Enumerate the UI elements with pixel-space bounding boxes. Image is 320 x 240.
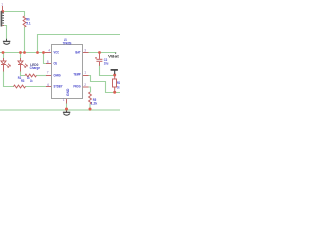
svg-text:STDBY: STDBY	[54, 85, 63, 89]
svg-text:BAT: BAT	[75, 51, 81, 55]
svg-text:GND: GND	[66, 88, 70, 96]
svg-text:4: 4	[48, 49, 50, 53]
svg-text:TP4056: TP4056	[63, 41, 72, 45]
svg-text:2: 2	[84, 83, 86, 87]
svg-text:VCC: VCC	[54, 51, 60, 55]
svg-text:TEMP: TEMP	[73, 72, 81, 76]
svg-text:8: 8	[47, 60, 49, 64]
svg-text:CE: CE	[54, 62, 58, 66]
svg-text:1.2k: 1.2k	[91, 101, 98, 105]
svg-text:CHRG: CHRG	[54, 74, 61, 78]
svg-text:3: 3	[84, 49, 86, 53]
svg-text:1: 1	[1, 3, 3, 7]
svg-text:1k: 1k	[117, 85, 120, 89]
svg-text:1k: 1k	[30, 79, 33, 83]
svg-text:1: 1	[84, 71, 86, 75]
svg-text:5.1: 5.1	[26, 21, 31, 25]
svg-text:1: 1	[63, 98, 65, 102]
svg-text:10u: 10u	[104, 62, 109, 66]
svg-text:VBat: VBat	[108, 54, 120, 58]
svg-text:LED0: LED0	[30, 63, 38, 67]
svg-text:PROG: PROG	[73, 85, 80, 89]
svg-text:R3: R3	[21, 79, 25, 83]
svg-text:7: 7	[47, 71, 49, 75]
svg-text:6: 6	[47, 83, 49, 87]
